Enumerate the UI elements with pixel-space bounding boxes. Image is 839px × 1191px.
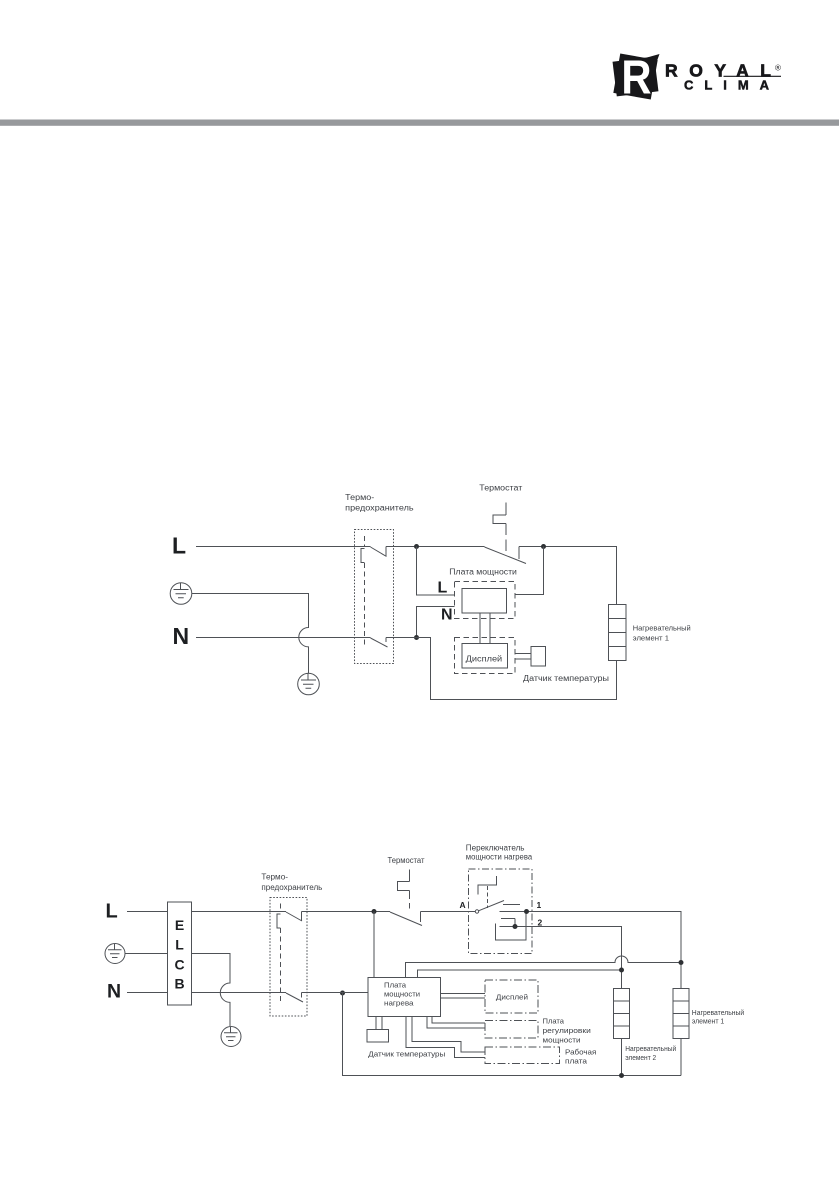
thermal fuse F1 label <box>345 493 413 513</box>
display module U1 <box>462 644 508 669</box>
thermal fuse F2 label <box>261 873 322 893</box>
power adjust board U3 <box>485 1021 538 1039</box>
svg-text:элемент 1: элемент 1 <box>692 1019 725 1026</box>
svg-text:предохранитель: предохранитель <box>345 504 413 513</box>
wire switched L branch to power board PCB1 <box>515 547 544 595</box>
svg-text:N: N <box>441 607 453 624</box>
svg-text:плата: плата <box>565 1057 588 1066</box>
thermostat TH1 switch <box>485 547 527 564</box>
wire selector terminal 1 to heating element EH2-1 <box>500 912 682 989</box>
svg-text:Плата мощности: Плата мощности <box>449 568 517 577</box>
junction node A3 <box>414 635 419 640</box>
heating element EH2-1 label <box>692 1009 744 1026</box>
logo mark (Royal Clima emblem) <box>613 50 660 104</box>
heating element EH1 label <box>633 624 691 643</box>
power board PCB1 enclosure <box>455 582 516 619</box>
thermal fuse F1 switch L pole <box>371 547 387 557</box>
breaker ELCB <box>168 902 192 1005</box>
thermal fuse F2 linkage <box>277 904 281 1002</box>
earth terminal PE3 <box>105 944 125 964</box>
power selector SW1 blade <box>479 901 505 911</box>
svg-text:Рабочая: Рабочая <box>565 1048 596 1057</box>
svg-text:Нагревательный: Нагревательный <box>633 624 691 633</box>
svg-text:1: 1 <box>537 900 542 910</box>
svg-text:Плата: Плата <box>384 981 407 990</box>
svg-text:Плата: Плата <box>543 1017 565 1026</box>
wire PCB2 feed B to element 2 column <box>418 970 622 978</box>
svg-text:Термостат: Термостат <box>479 484 522 493</box>
junction node B1 <box>372 909 377 914</box>
thermostat TH2 switch <box>390 912 422 926</box>
svg-text:Переключатель: Переключатель <box>466 844 525 853</box>
wire N2 terminal to ELCB <box>127 992 168 994</box>
earth ground symbol PE4 <box>221 1027 241 1047</box>
wire node B1 down to power board PCB2 <box>373 912 375 978</box>
wire F1 to thermostat TH1 (L bus) <box>386 546 485 548</box>
wire L terminal to thermal fuse F1 <box>196 546 371 548</box>
junction node B3 <box>513 924 518 929</box>
svg-text:Термо-: Термо- <box>261 873 288 882</box>
wire N branch to power board PCB1 <box>417 607 455 638</box>
display module U2 <box>485 980 538 1013</box>
svg-text:Термо-: Термо- <box>345 493 374 502</box>
power board PCB1 <box>462 589 507 614</box>
ribbon PCB2 to power adjust board <box>427 1017 485 1029</box>
working board U4 label <box>565 1048 596 1066</box>
power selector SW1 contact 1 <box>503 904 520 906</box>
heating element EH2-2 <box>614 989 630 1039</box>
thermal fuse F2 switch N pole <box>286 993 303 1003</box>
wire N terminal to thermal fuse F1 <box>196 637 371 639</box>
power selector SW1 enclosure <box>469 869 533 954</box>
wire N2 down to bottom rail <box>343 993 682 1076</box>
svg-text:L: L <box>172 533 186 559</box>
junction node A2 <box>541 544 546 549</box>
power selector SW1 linkage <box>478 876 497 908</box>
thermostat TH1 linkage <box>493 503 506 552</box>
junction node A1 <box>414 544 419 549</box>
power selector SW1 contact 2 <box>501 919 515 927</box>
wire ELCB to thermal fuse F2 (L) <box>192 911 287 913</box>
wire ELCB earth to ground with crossover hop over N <box>192 954 231 1027</box>
svg-text:B: B <box>174 976 184 992</box>
junction node B2 <box>524 909 529 914</box>
svg-text:элемент 1: элемент 1 <box>633 633 669 642</box>
wire L branch to power board PCB1 <box>417 547 455 596</box>
svg-text:Термостат: Термостат <box>388 856 425 865</box>
heating element EH2-2 label <box>625 1045 676 1062</box>
svg-text:L: L <box>175 937 184 953</box>
svg-text:E: E <box>175 917 184 933</box>
ribbon PCB2 to display U2 <box>441 994 486 999</box>
ribbon PCB1 to display <box>480 613 490 644</box>
header gray bar <box>0 120 839 126</box>
wire TH1 to heating element EH1 <box>519 547 617 605</box>
ribbon PCB2 to working board <box>406 1017 485 1058</box>
svg-text:Дисплей: Дисплей <box>466 655 503 664</box>
wire N to element return rail <box>386 638 617 700</box>
wire L2 terminal to ELCB <box>127 911 168 913</box>
ribbon PCB2 to temperature sensor <box>376 1017 382 1030</box>
display module U1 enclosure <box>455 638 516 674</box>
temperature sensor RT1 <box>531 647 546 667</box>
wire F2 to thermostat TH2 <box>302 911 391 913</box>
svg-text:мощности: мощности <box>384 990 420 999</box>
power board PCB2 <box>368 978 441 1017</box>
svg-text:C: C <box>174 957 184 973</box>
wire TH2 to power selector SW1 <box>421 911 478 913</box>
wire ELCB to thermal fuse F2 (N) <box>192 992 287 994</box>
thermal fuse F1 linkage <box>361 536 365 648</box>
svg-text:A: A <box>460 900 466 910</box>
svg-text:L: L <box>438 580 448 597</box>
svg-text:регулировки: регулировки <box>543 1026 591 1035</box>
svg-text:Датчик температуры: Датчик температуры <box>523 674 609 683</box>
junction node B5 <box>619 968 624 973</box>
svg-text:ROYAL: ROYAL <box>665 61 771 81</box>
wire element EH2-2 to bottom rail <box>621 1039 623 1076</box>
junction node B4 <box>679 960 684 965</box>
logo underline <box>724 75 782 77</box>
svg-text:N: N <box>107 981 121 1003</box>
wire PCB2 feed A with hop to element 1 column <box>406 956 682 977</box>
working board U4 <box>485 1047 560 1064</box>
svg-text:N: N <box>173 623 190 649</box>
temperature sensor RT2 <box>367 1030 389 1043</box>
wire element EH2-1 to bottom rail <box>680 1039 682 1076</box>
wire PE3 to ELCB <box>125 953 168 955</box>
wire PE1 to ground with crossover hop over N <box>192 594 309 674</box>
wire N2 to PCB2 <box>302 992 369 994</box>
thermostat TH2 linkage <box>398 870 410 909</box>
thermal fuse F1 switch N pole <box>371 638 388 648</box>
svg-text:Дисплей: Дисплей <box>496 993 528 1002</box>
thermal fuse F1 enclosure <box>355 530 394 664</box>
heating element EH1 <box>609 605 627 661</box>
svg-text:мощности нагрева: мощности нагрева <box>466 853 533 862</box>
earth ground symbol PE2 <box>298 673 320 695</box>
svg-text:®: ® <box>775 64 781 73</box>
junction node B7 <box>619 1073 624 1078</box>
ribbon display to temperature sensor <box>515 654 531 660</box>
thermal fuse F2 switch L pole <box>286 912 302 922</box>
svg-text:мощности: мощности <box>543 1036 581 1045</box>
power selector SW1 link bracket <box>496 912 527 941</box>
wire selector terminal 2 to heating element EH2-2 <box>500 927 622 989</box>
heating element EH2-1 <box>673 989 689 1039</box>
junction node B6 <box>340 991 345 996</box>
power selector SW1 pivot <box>475 910 478 913</box>
svg-text:предохранитель: предохранитель <box>261 883 322 892</box>
svg-text:элемент 2: элемент 2 <box>625 1055 656 1062</box>
svg-text:L: L <box>106 901 118 923</box>
svg-text:Датчик температуры: Датчик температуры <box>368 1050 445 1059</box>
thermal fuse F2 enclosure <box>270 898 307 1017</box>
svg-text:нагрева: нагрева <box>384 999 414 1008</box>
svg-text:Нагревательный: Нагревательный <box>692 1009 744 1017</box>
power adjust board U3 label <box>543 1017 591 1045</box>
svg-text:Нагревательный: Нагревательный <box>625 1045 676 1053</box>
earth terminal PE1 <box>170 583 192 605</box>
svg-text:R: R <box>621 50 651 104</box>
power selector SW1 label <box>466 844 533 862</box>
